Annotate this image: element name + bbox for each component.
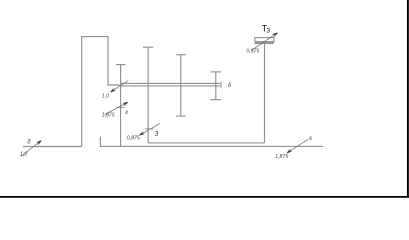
svg-text:1,0: 1,0 [20, 152, 27, 158]
wire ground line left segment [23, 146, 82, 148]
dimension arrow 0,875 on support pad [252, 33, 278, 51]
label 3 (pin 2) [155, 131, 158, 135]
pin 1 (stud with T-top, x=120.6) [116, 65, 125, 147]
wire beam end tick [220, 82, 222, 88]
wire ground riser [100, 137, 323, 147]
svg-text:1,875: 1,875 [102, 113, 115, 119]
pin 2 (stud with T-top, x=148.1) [143, 47, 153, 143]
svg-text:0,875: 0,875 [127, 135, 140, 141]
support pad T3 (hatched) [254, 38, 274, 45]
wire chimney (stepped wall outline, left) [82, 37, 121, 147]
wire support stem (right vertical) [264, 44, 266, 143]
dimension arrow x/1,875 on pin 1 [105, 102, 128, 114]
svg-text:0,875: 0,875 [246, 48, 259, 54]
dimension arrow 1,0 at beam left end [111, 81, 129, 92]
wire tray top line [148, 142, 264, 144]
wire beam bottom line [121, 85, 220, 87]
pin 4 (stud with T-top and T-bottom, x=215.8) [210, 72, 221, 100]
svg-text:1,0: 1,0 [102, 94, 109, 100]
dimension arrow x/1,875 bottom right [287, 139, 308, 153]
svg-text:3: 3 [266, 28, 270, 35]
border right vertical line [407, 0, 409, 198]
svg-text:1,875: 1,875 [275, 154, 288, 160]
wire beam top line [121, 82, 220, 84]
dimension arrow delta/1,0 bottom-left [21, 141, 41, 157]
border bottom horizontal line [0, 196, 409, 198]
dimension arrow 3/0,875 on pin 2 [140, 124, 160, 136]
pin 3 (stud with T-top and T-bottom, x=180.8) [176, 55, 186, 116]
